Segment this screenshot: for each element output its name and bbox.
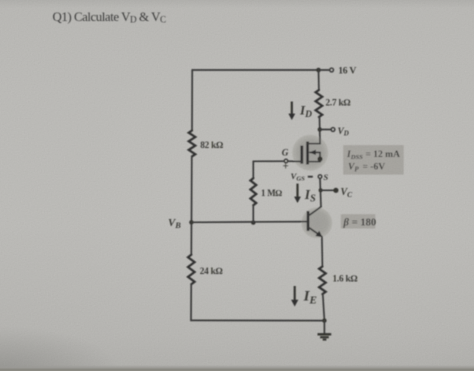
minus sign VGS [308, 176, 313, 178]
beta label box [341, 214, 376, 228]
mosfet M1 substrate arrow lead [309, 150, 320, 155]
resistor 1M [250, 178, 282, 205]
wire S down to collector [320, 179, 321, 207]
node S terminal circle [318, 175, 322, 179]
node 1M bottom junction dot [251, 220, 255, 224]
resistor 2.7k [316, 90, 351, 117]
mosfet M1 gate lead wire [253, 160, 283, 162]
current arrow ID [288, 102, 312, 121]
node VC [319, 187, 354, 199]
transistor Q1 emitter lead [309, 228, 323, 238]
wire left rail middle [190, 156, 193, 254]
wire top rail [192, 69, 318, 71]
wire gate circle to gate bar [288, 160, 302, 162]
mosfet M1 channel bar [306, 142, 309, 165]
wire left rail lower [190, 285, 192, 321]
info box IDSS VP [343, 145, 404, 175]
resistor 1.6k [319, 267, 357, 295]
wire bottom rail [191, 319, 324, 321]
wire resistor to ground junction [323, 294, 325, 321]
title text Q1 [53, 10, 166, 25]
mosfet M1 source lead [308, 161, 320, 163]
wire VB to base [191, 221, 306, 224]
node ground junction dot [322, 318, 326, 322]
transistor Q1 collector lead [309, 207, 321, 216]
node substrate-source junction dot [317, 156, 322, 161]
mosfet M1 body circle [292, 135, 328, 171]
mosfet M1 gate bar [300, 146, 303, 164]
current arrow IS [294, 184, 316, 205]
current arrow IE [291, 286, 317, 307]
resistor 1M branch bottom wire [252, 205, 254, 222]
transistor Q1 body circle [301, 207, 332, 238]
wire drain rail from top [318, 70, 320, 90]
mosfet M1 drain lead [308, 143, 320, 145]
node VB junction [189, 220, 193, 224]
wire left rail upper [191, 70, 193, 131]
resistor 1M branch top wire [252, 161, 254, 178]
node VD [318, 127, 349, 138]
wire resistor to VD node [319, 117, 322, 144]
resistor 24k [188, 255, 222, 284]
node G terminal circle [284, 159, 288, 163]
transistor Q1 base bar [307, 211, 310, 231]
wire substrate to source junction [319, 152, 321, 161]
ground [318, 321, 332, 340]
wire emitter down [321, 237, 324, 267]
resistor 82k [189, 131, 223, 157]
node 16V supply terminal [316, 66, 356, 77]
